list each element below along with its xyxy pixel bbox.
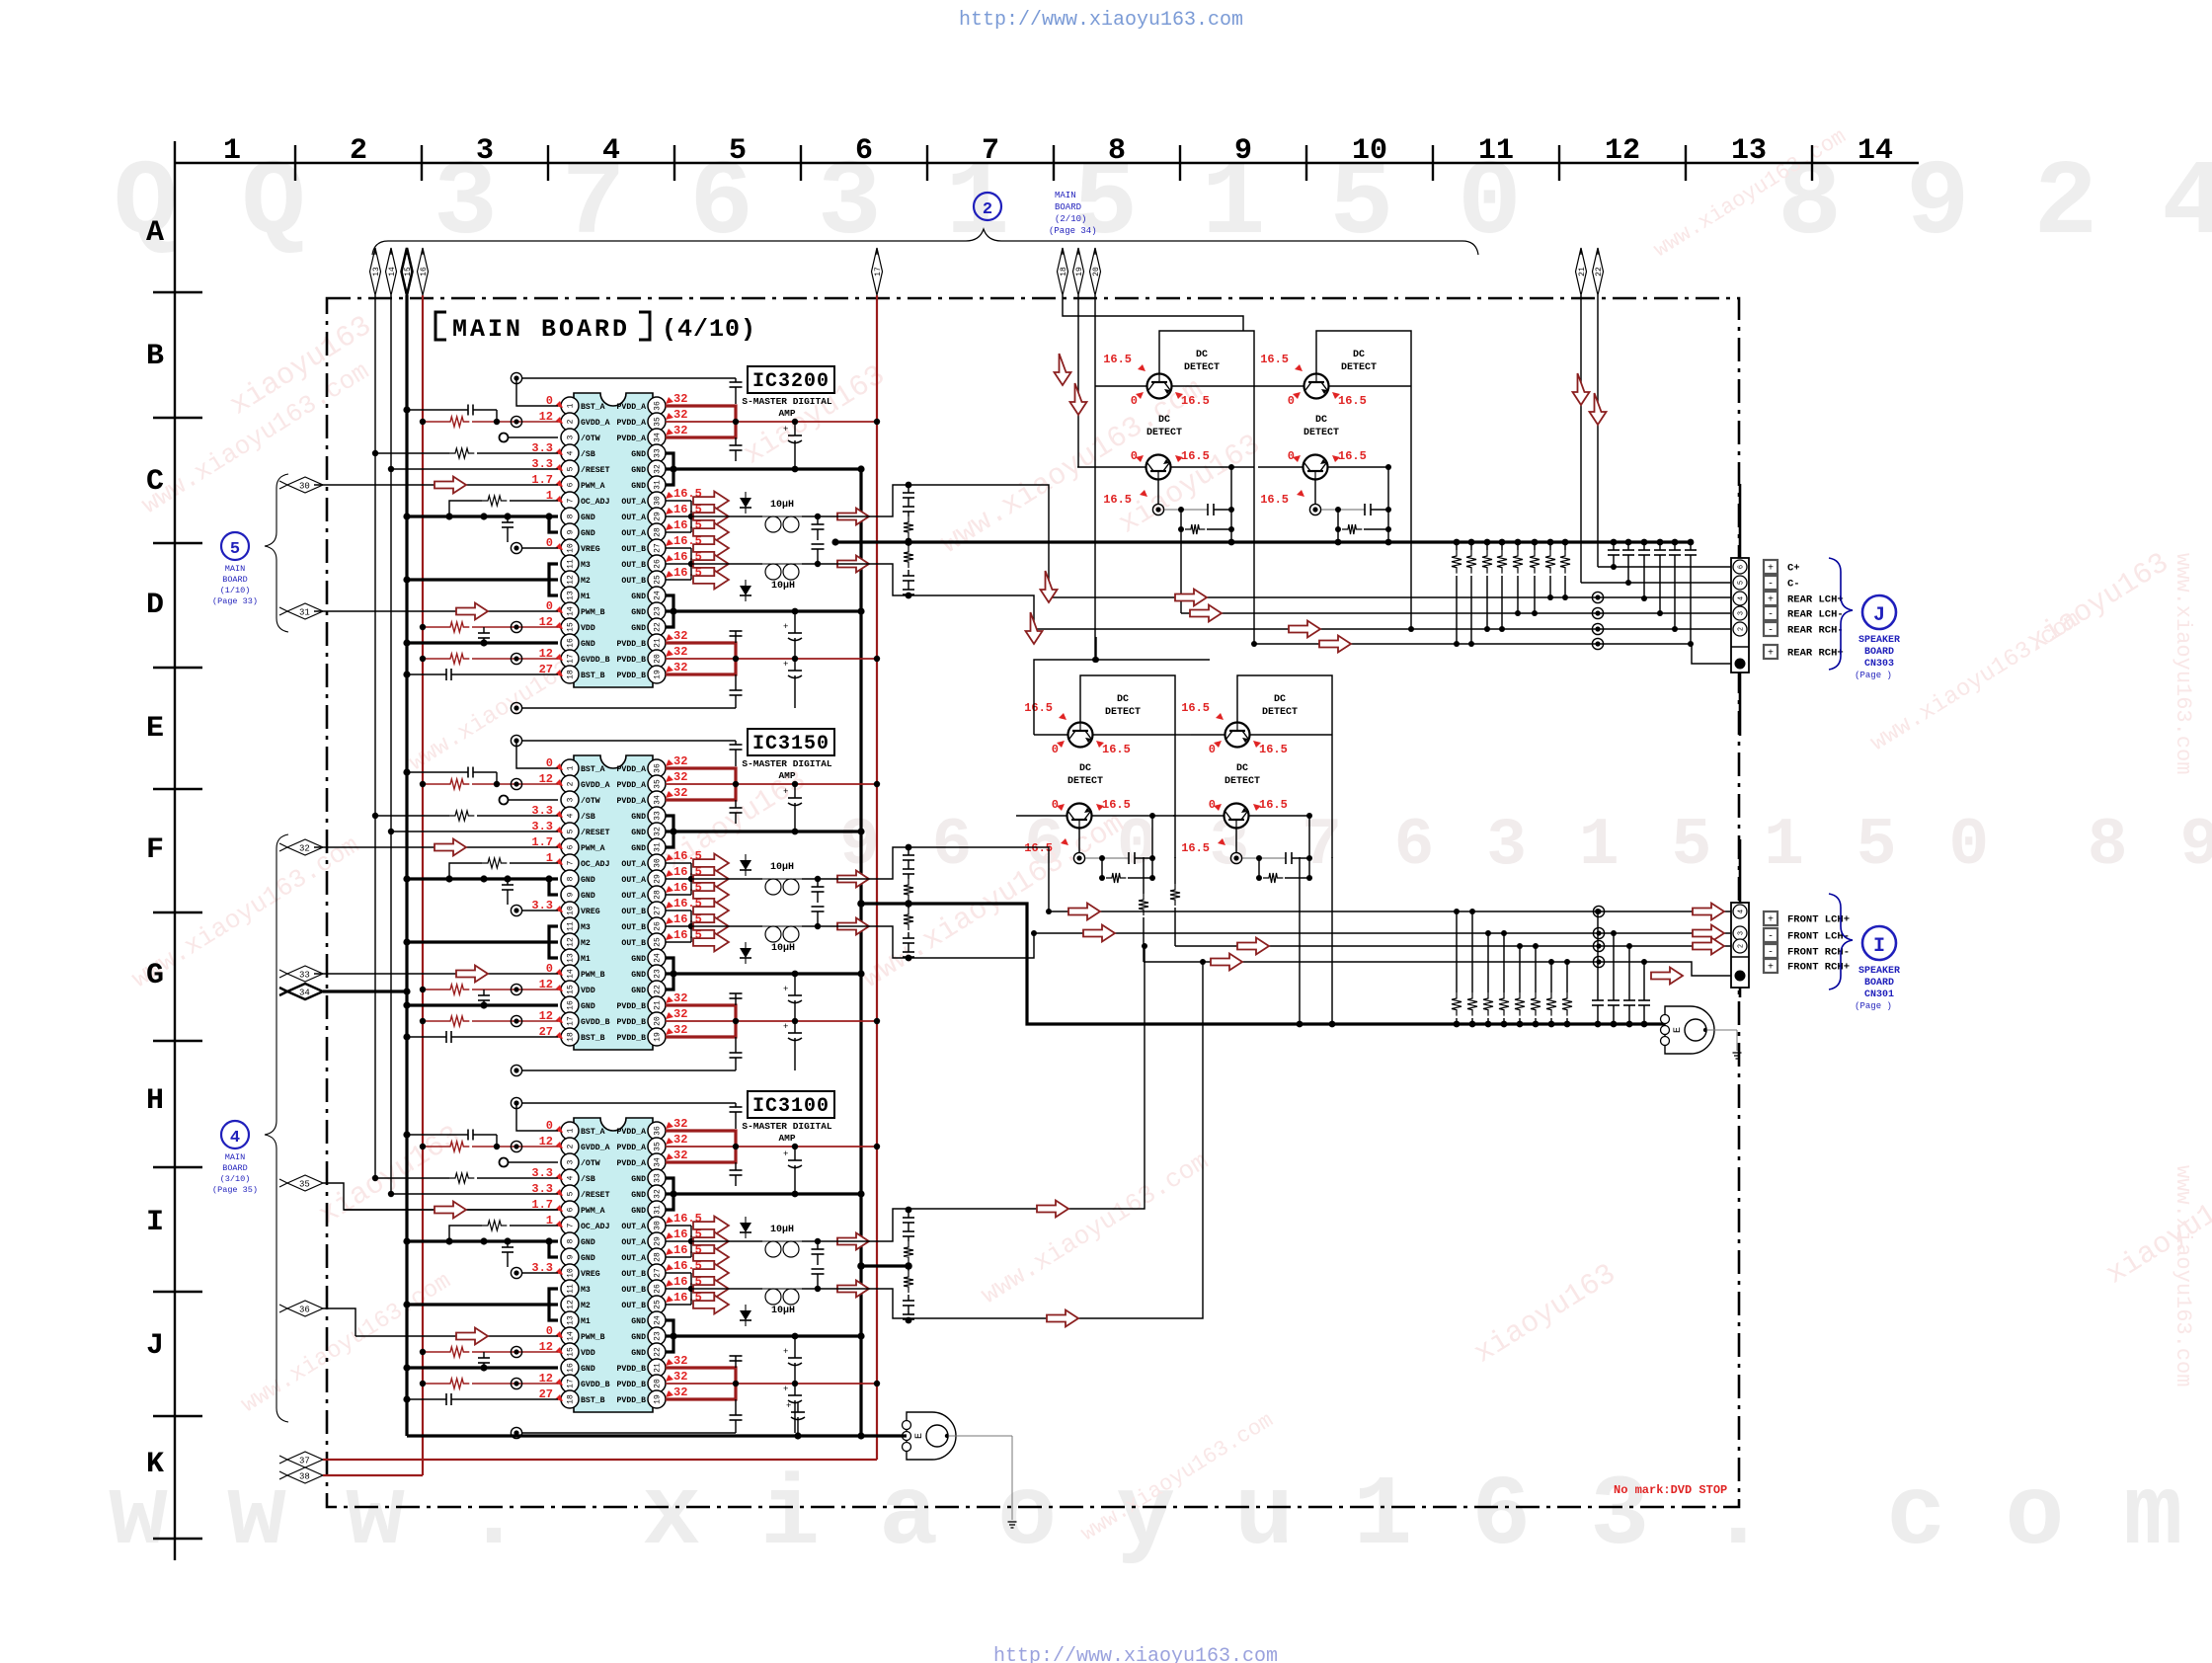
- svg-text:M3: M3: [581, 561, 591, 570]
- IC3200 pin 1: [561, 397, 605, 415]
- svg-text:24: 24: [654, 1315, 663, 1325]
- svg-text:-: -: [1768, 948, 1774, 959]
- IC3150 PWM_A arrow: [434, 839, 466, 856]
- transistor lower wires: [1258, 464, 1391, 470]
- svg-text:1: 1: [567, 1128, 576, 1133]
- svg-text:GND: GND: [631, 450, 646, 459]
- value 0 upper: [1052, 741, 1065, 756]
- svg-text:0: 0: [1288, 449, 1295, 463]
- IC3150 PVDD_A loop: [666, 768, 736, 800]
- svg-text:5: 5: [567, 466, 576, 471]
- IC3150 PWM_B wire: [314, 973, 558, 975]
- svg-text:+: +: [783, 1022, 788, 1032]
- svg-text:5: 5: [230, 540, 240, 559]
- IC3150 OUT_B wires: [666, 911, 694, 942]
- svg-text:36: 36: [654, 401, 663, 411]
- svg-text:PVDD_B: PVDD_B: [617, 1002, 647, 1011]
- emitter dot: [1309, 480, 1320, 515]
- page connector 31: [279, 603, 323, 619]
- transistor lower wires: [1016, 813, 1155, 819]
- IC3200 pin 21 value label: [666, 629, 687, 643]
- transistor lower: [1146, 455, 1171, 480]
- IC3200 GND8 cap: [502, 516, 513, 542]
- IC3150 cap bottom: [730, 1037, 743, 1070]
- svg-text:GND: GND: [631, 1333, 646, 1342]
- E lug front: [1661, 1006, 1715, 1054]
- svg-text:BST_B: BST_B: [581, 1034, 605, 1043]
- svg-text:16.5: 16.5: [1260, 353, 1289, 366]
- IC3200 PVDD_B bus: [666, 656, 880, 662]
- svg-text:27: 27: [654, 906, 663, 915]
- IC3150 pin 16: [561, 996, 595, 1014]
- value 16.5 upper r: [1253, 741, 1288, 756]
- IC3200 M wires: [403, 564, 558, 595]
- IC3200 pin 22: [631, 618, 666, 636]
- connector I pin gnd: [1735, 971, 1746, 982]
- IC3200 cap bottom: [730, 674, 743, 708]
- IC3100 pin 4 value label: [531, 1166, 563, 1180]
- connector J stem: [1739, 484, 1742, 736]
- svg-text:4: 4: [230, 1129, 240, 1148]
- transistor lower: [1224, 804, 1249, 829]
- IC3150 cap PVDD_B: [730, 993, 743, 1005]
- svg-text:GVDD_B: GVDD_B: [581, 656, 610, 665]
- svg-text:20: 20: [654, 654, 663, 664]
- IC3100 pin 8: [561, 1232, 595, 1250]
- svg-text:BST_B: BST_B: [581, 672, 605, 680]
- IC3100 OUT_A wires: [666, 1226, 694, 1257]
- svg-text:29: 29: [654, 512, 663, 521]
- svg-text:DC: DC: [1117, 694, 1129, 705]
- svg-text:5: 5: [1738, 581, 1746, 585]
- value 16.5 lower r: [1253, 798, 1288, 812]
- wire IC3100 outB up: [835, 959, 1206, 1327]
- IC3200 pin 31: [631, 476, 666, 494]
- svg-text:DETECT: DETECT: [1224, 776, 1260, 787]
- svg-text:GND: GND: [581, 1254, 595, 1263]
- svg-text:PVDD_B: PVDD_B: [617, 1018, 647, 1027]
- svg-text:22: 22: [1595, 267, 1604, 277]
- svg-text:9: 9: [1234, 134, 1252, 168]
- svg-text:14: 14: [567, 606, 576, 616]
- svg-text:4: 4: [567, 1175, 576, 1180]
- IC3150 pin 19: [617, 1028, 666, 1046]
- svg-text:PVDD_A: PVDD_A: [617, 797, 647, 806]
- svg-text:24: 24: [654, 953, 663, 963]
- IC3200 pin 32: [631, 460, 666, 478]
- svg-text:PVDD_A: PVDD_A: [617, 403, 647, 412]
- IC3150 OC_ADJ wire: [445, 858, 558, 883]
- IC3200 pin 14: [561, 602, 605, 620]
- IC3200 OTW wire: [500, 434, 559, 442]
- svg-text:2: 2: [350, 134, 367, 168]
- wire 21 drop: [1580, 295, 1582, 583]
- IC3150 GVDD_A wire: [420, 778, 558, 789]
- rear wire LCH-: [1181, 607, 1731, 618]
- IC3200 label box: [748, 366, 834, 393]
- svg-text:13: 13: [567, 1315, 576, 1325]
- IC3100 pin 27: [621, 1264, 666, 1282]
- page connector 17: [872, 248, 883, 295]
- IC3100 PVDD_A bus: [666, 1144, 880, 1149]
- svg-text:16.5: 16.5: [1181, 841, 1210, 855]
- IC3150 pin 21 value label: [666, 991, 687, 1005]
- IC3100 BST cap: [730, 1103, 743, 1129]
- IC3200 pin 27 value label: [666, 534, 702, 548]
- svg-text:7: 7: [567, 860, 576, 865]
- IC3100 pin 15: [561, 1343, 595, 1361]
- IC3150 PVDD_B loop: [666, 1005, 736, 1037]
- svg-text:4: 4: [602, 134, 620, 168]
- heavy bus front: [857, 900, 1671, 1024]
- IC3150 PVDD_B bus: [666, 1018, 880, 1024]
- IC3150 pin 26: [621, 917, 666, 935]
- svg-text:GND: GND: [631, 593, 646, 601]
- base cap: [1164, 467, 1234, 529]
- IC3150 OUT arrow 5: [693, 917, 729, 936]
- transistor upper: [1147, 374, 1172, 399]
- IC3200 wire outA: [691, 514, 835, 519]
- IC3100 pin 19 value label: [666, 1386, 687, 1399]
- svg-text:23: 23: [654, 606, 663, 616]
- IC3150 pin 7: [561, 854, 610, 872]
- svg-text:2: 2: [567, 419, 576, 424]
- IC3200 pin 7: [561, 492, 610, 510]
- svg-text:VREG: VREG: [581, 545, 600, 554]
- IC3200 pin 1 value label: [546, 394, 563, 408]
- IC3150 pin 2 value label: [539, 772, 563, 786]
- svg-text:3: 3: [476, 134, 494, 168]
- page ref 4 circle: [221, 1121, 249, 1148]
- IC3100 pin 34 value label: [666, 1148, 687, 1162]
- svg-text:K: K: [146, 1448, 164, 1481]
- IC3200 pin 7 value label: [546, 489, 563, 503]
- svg-text:GVDD_B: GVDD_B: [581, 1018, 610, 1027]
- svg-text:FRONT LCH-: FRONT LCH-: [1787, 931, 1850, 943]
- svg-text:PVDD_B: PVDD_B: [617, 672, 647, 680]
- heavy bus rear: [831, 538, 1692, 546]
- IC3150 out cap2: [812, 907, 825, 926]
- base res: [1099, 855, 1155, 883]
- svg-text:GND: GND: [631, 844, 646, 853]
- svg-text:16.5: 16.5: [1103, 493, 1132, 507]
- svg-text:-: -: [1768, 610, 1774, 621]
- page connector 32: [279, 839, 323, 855]
- svg-text:26: 26: [654, 1284, 663, 1294]
- svg-text:16.5: 16.5: [1260, 493, 1289, 507]
- IC3100 pin 25 value label: [666, 1291, 702, 1305]
- svg-text:OUT_A: OUT_A: [621, 1254, 646, 1263]
- svg-text:H: H: [146, 1084, 164, 1118]
- IC3150 pin 24: [631, 949, 666, 967]
- IC3100 BST_A wire: [511, 1097, 558, 1131]
- IC3200 cap PVDD_A: [730, 437, 743, 461]
- wire 18 drop: [1063, 295, 1243, 331]
- rear resistor bank: [1452, 539, 1570, 647]
- IC3200 BST_A wire: [511, 372, 558, 406]
- svg-text:C-: C-: [1787, 579, 1800, 591]
- svg-text:22: 22: [654, 985, 663, 994]
- wire from 35: [323, 1183, 558, 1210]
- IC3200 pin 35: [617, 413, 666, 431]
- svg-text:+: +: [783, 985, 788, 994]
- base res: [1178, 507, 1234, 534]
- svg-text:6: 6: [1738, 565, 1746, 569]
- svg-text:F: F: [146, 833, 164, 867]
- front cap bank: [1592, 909, 1650, 1027]
- IC3200 GND9 link: [549, 516, 558, 532]
- IC3100 pin 1: [561, 1122, 605, 1140]
- IC3150 BST cap: [730, 741, 743, 766]
- svg-text:21: 21: [654, 1000, 663, 1010]
- top group link wire: [1231, 386, 1414, 647]
- IC3200 pin 16: [561, 634, 595, 652]
- svg-text:PVDD_A: PVDD_A: [617, 1159, 647, 1168]
- svg-text:6: 6: [855, 134, 873, 168]
- main board dash-dot outline: [327, 298, 1739, 1507]
- svg-text:19: 19: [1075, 267, 1084, 277]
- IC3150 pin 35 value label: [666, 770, 687, 784]
- wire IC3150 outA to front: [835, 847, 1052, 914]
- mid group outer wire: [1034, 637, 1210, 735]
- svg-text:22: 22: [654, 622, 663, 632]
- IC3150 zener A: [740, 854, 751, 876]
- svg-text:16.5: 16.5: [1338, 449, 1367, 463]
- IC3150 pin 1: [561, 759, 605, 777]
- svg-text:32: 32: [673, 1370, 687, 1384]
- svg-text:OUT_B: OUT_B: [621, 1286, 646, 1295]
- svg-text:3: 3: [1738, 611, 1746, 615]
- svg-text:16.5: 16.5: [1102, 798, 1131, 812]
- svg-text:19: 19: [654, 670, 663, 679]
- page connector 14: [386, 248, 397, 295]
- IC3200 GVDD_B wire: [420, 653, 558, 664]
- IC3100 PVDD_B loop: [666, 1368, 736, 1399]
- IC3150 pin 30: [621, 854, 666, 872]
- red wire 38: [323, 1474, 423, 1476]
- op-amp IC3150 body: [574, 755, 653, 1050]
- IC3200 OUT arrow 3: [693, 523, 729, 542]
- IC3150 pin 8: [561, 870, 595, 888]
- bottom GND bold wire: [407, 1432, 907, 1439]
- svg-text:36: 36: [654, 1126, 663, 1136]
- IC3200 ecap bot: [783, 659, 802, 708]
- svg-text:33: 33: [654, 1173, 663, 1183]
- IC3150 pin 31: [631, 838, 666, 856]
- IC3100 OUT arrow 3: [693, 1248, 729, 1267]
- IC3200 arrow outB: [837, 556, 869, 573]
- IC3150 pin 28: [621, 886, 666, 904]
- svg-text:+: +: [1768, 963, 1774, 974]
- IC3100 GND16 wire: [403, 1364, 558, 1371]
- IC3100 OUT arrow 5: [693, 1280, 729, 1299]
- svg-text:OUT_A: OUT_A: [621, 860, 646, 869]
- svg-text:13: 13: [1731, 134, 1767, 168]
- svg-text:18: 18: [1060, 267, 1068, 277]
- IC3200 GND A loop: [666, 453, 673, 485]
- svg-text:14: 14: [567, 1331, 576, 1341]
- IC3200 inductor A 10uH: [762, 500, 802, 532]
- svg-text:IC3150: IC3150: [752, 733, 829, 755]
- IC3150 OUT_A wires: [666, 863, 694, 895]
- connector J pin 4: [1733, 592, 1747, 605]
- svg-text:22: 22: [654, 1347, 663, 1357]
- IC3200 pin 14 value label: [546, 599, 563, 613]
- svg-text:11: 11: [1478, 134, 1514, 168]
- IC3150 pin 14 value label: [546, 962, 563, 976]
- brace group 5: [265, 474, 288, 632]
- rear arrows: [1175, 590, 1351, 653]
- svg-text:GND: GND: [631, 955, 646, 964]
- border top ruler line: [175, 162, 1919, 164]
- svg-text:OUT_A: OUT_A: [621, 892, 646, 901]
- svg-text:10µH: 10µH: [771, 943, 795, 954]
- svg-text:REAR RCH-: REAR RCH-: [1787, 625, 1844, 637]
- svg-text:OUT_B: OUT_B: [621, 561, 646, 570]
- svg-text:CN303: CN303: [1864, 659, 1894, 670]
- svg-text:VDD: VDD: [581, 624, 595, 633]
- IC3100 pin 20 value label: [666, 1370, 687, 1384]
- svg-text:16: 16: [567, 1000, 576, 1010]
- connector J brace: [1829, 558, 1853, 670]
- base res: [1256, 855, 1312, 883]
- IC3200 PWM_A arrow: [434, 477, 466, 494]
- svg-text:BST_A: BST_A: [581, 403, 605, 412]
- IC3200 PVDD_A bus: [666, 419, 880, 425]
- IC3100 PWM_A arrow: [434, 1202, 466, 1219]
- IC3150 ecap mid: [783, 971, 802, 1025]
- IC3150 inductor A 10uH: [762, 862, 802, 895]
- IC3100 PVDD_B bus: [666, 1381, 880, 1386]
- IC3150 pin 17: [561, 1012, 610, 1030]
- svg-text:14: 14: [388, 267, 397, 277]
- IC3100 out cap2: [812, 1269, 825, 1289]
- svg-text:10µH: 10µH: [770, 1225, 794, 1235]
- wire rail 14: [390, 295, 392, 1194]
- IC3100 pin 10 value label: [531, 1261, 563, 1275]
- svg-text:7: 7: [982, 134, 999, 168]
- svg-text:(Page ): (Page ): [1855, 1001, 1892, 1011]
- svg-text:OUT_B: OUT_B: [621, 577, 646, 586]
- svg-text:M1: M1: [581, 955, 591, 964]
- page connector 16: [418, 248, 429, 295]
- IC3150 pin 19 value label: [666, 1023, 687, 1037]
- value 16.5 upper: [1024, 701, 1066, 720]
- IC3150 VDD wire: [420, 984, 558, 994]
- svg-text:13: 13: [567, 953, 576, 963]
- svg-text:GND: GND: [631, 608, 646, 617]
- svg-text:32: 32: [673, 1148, 687, 1162]
- svg-text:5: 5: [567, 829, 576, 833]
- top group cap drops: [1181, 529, 1391, 613]
- svg-text:11: 11: [567, 921, 576, 931]
- svg-text:IC3100: IC3100: [752, 1095, 829, 1118]
- svg-text:M1: M1: [581, 1317, 591, 1326]
- IC3200 OUT_B wires: [666, 548, 694, 580]
- IC3100 pin 35 value label: [666, 1133, 687, 1147]
- IC3150 pin 26 value label: [666, 912, 702, 926]
- front wire RCH-: [1170, 857, 1731, 955]
- svg-text:/SB: /SB: [581, 1174, 595, 1184]
- svg-text:(1/10): (1/10): [220, 586, 251, 595]
- svg-text:32: 32: [673, 1354, 687, 1368]
- decor: [0, 0, 1, 1]
- IC3100 OUT arrow 1: [693, 1217, 729, 1235]
- IC3200 pin 25: [621, 571, 666, 589]
- svg-text:31: 31: [654, 842, 663, 852]
- page connector 30: [279, 477, 323, 493]
- svg-text:7: 7: [567, 498, 576, 503]
- IC3100 pin 6: [561, 1201, 605, 1219]
- IC3150 pin 36: [617, 759, 666, 777]
- svg-text:A: A: [146, 216, 164, 250]
- svg-text:0: 0: [1209, 743, 1216, 756]
- value 16.5 upper: [1181, 701, 1224, 720]
- IC3100 arrow outA: [837, 1233, 869, 1250]
- svg-text:6: 6: [567, 844, 576, 849]
- svg-text:PVDD_A: PVDD_A: [617, 419, 647, 428]
- IC3200 pin 34: [617, 429, 666, 446]
- svg-text:J: J: [1873, 604, 1885, 627]
- IC3200 pin 15 value label: [539, 615, 563, 629]
- rear cap bank: [1608, 539, 1697, 647]
- IC3200 pin 25 value label: [666, 566, 702, 580]
- svg-text:28: 28: [654, 1252, 663, 1262]
- svg-text:OC_ADJ: OC_ADJ: [581, 860, 610, 869]
- svg-text:GVDD_A: GVDD_A: [581, 1144, 610, 1152]
- IC3100 pin 3: [561, 1153, 600, 1171]
- svg-text:20: 20: [654, 1016, 663, 1026]
- svg-text:PVDD_B: PVDD_B: [617, 656, 647, 665]
- IC3200 pin 28: [621, 523, 666, 541]
- svg-text:+: +: [1768, 649, 1774, 660]
- front wire RCH+: [1139, 857, 1731, 976]
- IC3150 zener B: [740, 942, 751, 964]
- IC3150 pin 22: [631, 981, 666, 998]
- base cap: [1085, 816, 1155, 878]
- base cap: [1321, 467, 1391, 529]
- IC3100 pin 17: [561, 1375, 610, 1392]
- svg-text:34: 34: [654, 433, 663, 442]
- IC3150 GVDD_A cap: [403, 767, 497, 785]
- IC3200 out cap: [812, 516, 825, 540]
- svg-text:23: 23: [654, 969, 663, 979]
- IC3100 RESET wire: [388, 1191, 558, 1197]
- IC3200 GND B loop: [666, 595, 673, 627]
- bottom url: [993, 1645, 1278, 1663]
- IC3200 pin 29: [621, 508, 666, 525]
- IC3200 pin 24: [631, 587, 666, 604]
- svg-text:OUT_B: OUT_B: [621, 1302, 646, 1310]
- svg-text:DETECT: DETECT: [1341, 362, 1377, 373]
- svg-text:VDD: VDD: [581, 987, 595, 995]
- page connector 37: [279, 1452, 323, 1467]
- IC3100 wire outB: [691, 1286, 835, 1292]
- IC3200 PWM_B wire: [314, 610, 558, 612]
- rear wire RCH-: [1034, 623, 1731, 634]
- IC3100 pin 30 value label: [666, 1212, 702, 1226]
- IC3200 GVDD_A wire: [420, 416, 558, 427]
- IC3150 OUT arrow 6: [693, 933, 729, 952]
- svg-text:5: 5: [567, 1191, 576, 1196]
- svg-text:16.5: 16.5: [1103, 353, 1132, 366]
- page connector 34: [279, 984, 323, 999]
- IC3100 pin 5 value label: [531, 1182, 563, 1196]
- svg-text:PVDD_B: PVDD_B: [617, 1396, 647, 1405]
- IC3150 pin 25 value label: [666, 928, 702, 942]
- IC3100 pin 9: [561, 1248, 595, 1266]
- svg-text:4: 4: [567, 450, 576, 455]
